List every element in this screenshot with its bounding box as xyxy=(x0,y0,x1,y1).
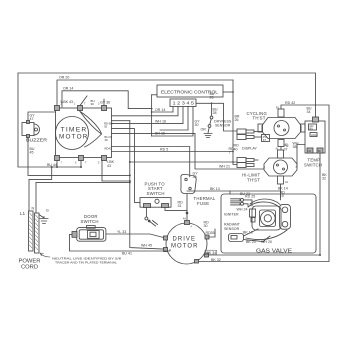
wire WH 21 ear xyxy=(263,167,266,169)
wire igniter drop xyxy=(229,191,231,194)
wire timer bottom-right diagonal xyxy=(102,161,130,182)
svg-text:RADIANT: RADIANT xyxy=(224,223,241,227)
wire igniter right xyxy=(244,200,253,206)
svg-text:35: 35 xyxy=(211,231,215,235)
wire timer right y128.6 WH 21 run xyxy=(112,129,141,203)
radiant sensor xyxy=(229,234,244,242)
wire timer right y141 xyxy=(112,151,234,153)
svg-text:SENSOR: SENSOR xyxy=(215,124,231,128)
wire L1 up xyxy=(29,167,52,211)
svg-text:1: 1 xyxy=(74,103,76,106)
ground G xyxy=(39,215,44,219)
svg-text:DRIVE: DRIVE xyxy=(173,237,197,243)
wire PU 37 cycling to hi-limit xyxy=(280,147,282,151)
svg-text:BK 20: BK 20 xyxy=(246,240,256,244)
wire switch right to fuse junction xyxy=(165,208,187,211)
svg-text:30: 30 xyxy=(91,102,95,106)
hi-limit thermostat xyxy=(264,158,297,176)
power cord xyxy=(29,211,40,253)
svg-text:OR: OR xyxy=(308,149,312,153)
thermal fuse F1 xyxy=(181,174,196,193)
door switch left terminal xyxy=(72,232,77,238)
wire x151.6 bus xyxy=(151,95,153,136)
timer box xyxy=(56,108,112,158)
svg-text:MOTOR: MOTOR xyxy=(59,135,89,141)
cycling thermostat xyxy=(262,118,301,139)
svg-text:43: 43 xyxy=(107,164,111,168)
display connector pair 1 xyxy=(237,129,246,134)
svg-text:43: 43 xyxy=(109,147,113,151)
svg-text:6: 6 xyxy=(75,162,77,165)
wire gas valve top RD 19 xyxy=(280,191,282,200)
wire timer right y133.4 to x134.5 xyxy=(112,133,265,169)
wire timer bottom-mid stub xyxy=(80,161,82,168)
svg-text:30: 30 xyxy=(195,123,199,127)
svg-text:RD 25: RD 25 xyxy=(245,195,255,199)
wire N up xyxy=(36,182,130,213)
svg-text:GY 36: GY 36 xyxy=(100,100,110,104)
svg-text:N: N xyxy=(32,207,35,211)
svg-text:28: 28 xyxy=(213,111,217,115)
svg-text:TIMER: TIMER xyxy=(61,128,88,134)
wire YL 33 door to motor xyxy=(106,234,164,238)
svg-text:BU 44: BU 44 xyxy=(47,163,57,167)
svg-text:5: 5 xyxy=(98,162,100,165)
burner box xyxy=(221,194,316,253)
motor terminal right1 xyxy=(205,235,209,239)
wire EC to display bus xyxy=(223,91,233,93)
EC pin 1 wire xyxy=(172,107,174,113)
cycling mount ear left xyxy=(258,124,263,132)
wire dryness drop xyxy=(211,103,213,116)
wire display bus x233 xyxy=(233,80,237,165)
svg-text:RD 5: RD 5 xyxy=(160,148,168,152)
EC pin 2 wire xyxy=(112,107,179,116)
svg-text:19: 19 xyxy=(280,194,284,198)
svg-text:26: 26 xyxy=(235,118,239,122)
wire left bus BU 44 xyxy=(18,73,81,167)
svg-text:SWITCH: SWITCH xyxy=(147,191,165,196)
PU 37 boxed label xyxy=(262,135,270,142)
svg-text:4: 4 xyxy=(191,226,193,229)
svg-text:1 2 3 4 5: 1 2 3 4 5 xyxy=(173,101,195,107)
svg-text:31: 31 xyxy=(178,204,182,208)
motor terminal right2 xyxy=(205,253,209,257)
svg-text:SENSOR: SENSOR xyxy=(224,227,240,231)
svg-text:DISPLAY: DISPLAY xyxy=(242,147,258,151)
svg-text:7: 7 xyxy=(229,151,231,155)
timer terminal bottom-left xyxy=(55,156,60,161)
svg-text:OR 20: OR 20 xyxy=(59,76,69,80)
svg-text:OR: OR xyxy=(201,128,207,132)
svg-text:G: G xyxy=(46,209,49,213)
svg-text:Y-BK 43: Y-BK 43 xyxy=(60,100,73,104)
svg-text:WH 24: WH 24 xyxy=(237,208,248,212)
svg-text:35: 35 xyxy=(104,125,108,129)
EC connector 1-5 xyxy=(170,99,196,107)
svg-text:37: 37 xyxy=(263,138,267,142)
motor lead connector xyxy=(151,221,158,227)
drive motor M2 xyxy=(166,223,207,264)
svg-text:L1: L1 xyxy=(20,211,26,216)
wire timer right y120.7 to N bus xyxy=(112,120,130,122)
svg-text:BK 32: BK 32 xyxy=(211,258,221,262)
motor terminal left2 xyxy=(164,248,168,252)
door switch S3 xyxy=(77,228,106,242)
svg-text:BK 19: BK 19 xyxy=(243,230,253,234)
timer terminal top-mid xyxy=(78,106,83,111)
motor terminal left1 xyxy=(164,236,168,240)
igniter xyxy=(231,199,240,201)
svg-text:30: 30 xyxy=(193,175,197,179)
timer cam pointer xyxy=(80,112,102,148)
svg-text:A2: A2 xyxy=(285,181,289,184)
timer terminal top-left xyxy=(55,106,60,111)
svg-text:SWITCH: SWITCH xyxy=(81,219,99,224)
svg-text:38: 38 xyxy=(293,145,297,149)
svg-text:37: 37 xyxy=(284,148,288,152)
wire N bus vertical x129.8 xyxy=(130,121,164,249)
wire hi-limit bottom BK 14 xyxy=(187,184,281,191)
svg-text:BU 41: BU 41 xyxy=(122,252,132,256)
svg-text:GAS VALVE: GAS VALVE xyxy=(256,248,293,254)
svg-text:BK 14: BK 14 xyxy=(210,187,220,191)
svg-text:BR 15: BR 15 xyxy=(155,132,165,136)
wire buzzer bottom run xyxy=(28,136,130,176)
wire buzzer top xyxy=(28,112,56,121)
timer terminal bottom-mid xyxy=(79,156,84,161)
svg-text:40: 40 xyxy=(234,147,238,151)
svg-text:SWITCH: SWITCH xyxy=(304,162,322,167)
svg-text:BU: BU xyxy=(310,127,314,131)
wire fuse bottom to motor xyxy=(186,194,188,222)
buzzer terminal bottom xyxy=(27,135,30,138)
wire switch left stub circle xyxy=(145,208,147,218)
wire temp switch left WH 38 xyxy=(296,145,305,168)
svg-text:IGNITER: IGNITER xyxy=(224,213,239,217)
svg-text:TRACER AND TIN PLATED TERMINAL: TRACER AND TIN PLATED TERMINAL xyxy=(55,260,117,264)
svg-text:26: 26 xyxy=(210,96,214,100)
wire EC right to dryness xyxy=(196,103,237,131)
EC pin 4 wire xyxy=(160,107,188,131)
svg-text:39: 39 xyxy=(105,138,109,142)
cycling mount ear right xyxy=(301,124,306,132)
wire timer mid-top diagonal xyxy=(80,96,87,106)
svg-text:7: 7 xyxy=(61,162,63,165)
wire Y-BK to display pair2 xyxy=(130,161,237,163)
svg-text:BK 34: BK 34 xyxy=(207,251,217,255)
svg-text:YL 33: YL 33 xyxy=(117,230,126,234)
svg-text:CORD: CORD xyxy=(21,265,38,271)
svg-text:HIGH: HIGH xyxy=(311,133,318,137)
buzzer terminal top xyxy=(27,121,30,124)
timer motor M1 xyxy=(56,117,89,150)
svg-text:OR 14: OR 14 xyxy=(155,108,165,112)
svg-text:30: 30 xyxy=(204,224,208,228)
wire sensor right diag xyxy=(244,229,259,236)
EC pin 3 wire xyxy=(112,107,184,124)
svg-text:47: 47 xyxy=(30,117,34,121)
EC pin 5 wire xyxy=(152,107,193,137)
svg-text:34: 34 xyxy=(307,110,311,114)
wire timer bottom-left stub xyxy=(56,161,58,168)
buzzer BZ xyxy=(22,123,34,136)
svg-text:4A: 4A xyxy=(183,218,186,221)
wire OR 20 xyxy=(57,80,233,107)
svg-text:BK: BK xyxy=(318,149,322,153)
display connector pair 2 xyxy=(237,158,246,163)
svg-text:WH 45: WH 45 xyxy=(141,244,152,248)
timer terminal top-right xyxy=(102,106,107,111)
hi-limit terminal top xyxy=(278,150,284,158)
wire GY 36 xyxy=(103,99,105,106)
gas valve V1 xyxy=(246,199,291,240)
dryness sensor RS xyxy=(210,116,213,119)
svg-text:T: T xyxy=(85,162,87,165)
cycling terminal top xyxy=(278,109,284,117)
wire RD motor right up xyxy=(209,229,215,237)
wire temp switch bottom BK xyxy=(319,153,321,255)
wire BK 34 motor right xyxy=(209,254,321,256)
timer terminal bottom-right xyxy=(102,156,107,161)
svg-text:FUSE: FUSE xyxy=(197,201,209,206)
temp switch S2 xyxy=(305,121,325,153)
ground (dryness) xyxy=(208,127,209,133)
svg-text:TH'ST: TH'ST xyxy=(247,177,260,182)
electronic control U1 xyxy=(157,85,223,97)
svg-text:WH 20: WH 20 xyxy=(261,240,272,244)
svg-text:WH 16: WH 16 xyxy=(155,120,166,124)
wire EC left hook xyxy=(152,94,157,96)
svg-text:MOTOR: MOTOR xyxy=(171,244,199,250)
svg-text:RD 42: RD 42 xyxy=(285,101,295,105)
wire top bus to temp switch xyxy=(18,73,316,117)
wire timer right y146.5 to thermal fuse xyxy=(112,147,190,177)
svg-text:32: 32 xyxy=(322,177,326,181)
svg-text:WH 21: WH 21 xyxy=(219,165,230,169)
wire RD 42 xyxy=(197,105,329,262)
svg-text:BUZZER: BUZZER xyxy=(26,138,47,143)
svg-text:T: T xyxy=(84,103,86,106)
wire pin1 feed xyxy=(152,111,173,113)
wire BU 41 xyxy=(70,234,171,251)
svg-text:OR 14: OR 14 xyxy=(63,87,73,91)
motor terminal bottom xyxy=(195,260,199,264)
push-to-start switch S1 xyxy=(140,198,171,208)
motor terminal top xyxy=(185,221,190,225)
svg-text:TH'ST: TH'ST xyxy=(253,116,266,121)
hi-limit terminal bottom xyxy=(278,176,284,184)
cycling terminal bottom xyxy=(278,140,284,147)
note arrow xyxy=(40,253,50,257)
svg-text:45: 45 xyxy=(30,151,34,155)
wire OR 14 xyxy=(62,91,152,109)
